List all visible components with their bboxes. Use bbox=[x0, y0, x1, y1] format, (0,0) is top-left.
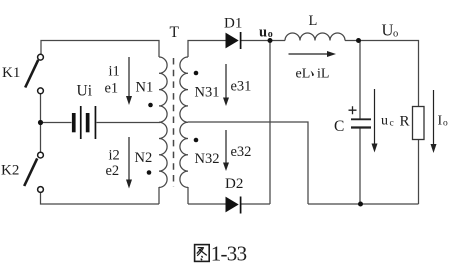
svg-text:i2: i2 bbox=[109, 148, 120, 164]
svg-text:i1: i1 bbox=[109, 64, 120, 80]
svg-text:L: L bbox=[309, 13, 318, 29]
svg-text:o: o bbox=[268, 29, 273, 40]
svg-text:N31: N31 bbox=[195, 85, 220, 101]
svg-text:o: o bbox=[443, 119, 448, 129]
svg-text:D1: D1 bbox=[224, 16, 242, 32]
svg-text:D2: D2 bbox=[225, 176, 243, 192]
svg-text:N1: N1 bbox=[136, 80, 154, 96]
svg-text:c: c bbox=[390, 119, 394, 129]
svg-text:u: u bbox=[381, 114, 388, 129]
svg-text:T: T bbox=[170, 24, 180, 41]
svg-text:e1: e1 bbox=[105, 81, 119, 97]
svg-text:iL: iL bbox=[317, 67, 329, 82]
svg-text:eL: eL bbox=[296, 67, 311, 82]
svg-text:N32: N32 bbox=[195, 151, 220, 167]
svg-text:I: I bbox=[438, 114, 443, 129]
svg-text:e31: e31 bbox=[231, 79, 252, 95]
svg-text:1-33: 1-33 bbox=[211, 242, 247, 266]
svg-text:U: U bbox=[382, 21, 394, 40]
svg-text:o: o bbox=[393, 29, 398, 40]
svg-text:e32: e32 bbox=[231, 144, 252, 160]
svg-text:N2: N2 bbox=[135, 150, 153, 166]
svg-text:e2: e2 bbox=[106, 163, 120, 179]
svg-text:R: R bbox=[400, 114, 410, 130]
svg-text:u: u bbox=[259, 25, 267, 41]
svg-text:K1: K1 bbox=[2, 65, 20, 81]
svg-text:Ui: Ui bbox=[77, 83, 93, 100]
svg-text:K2: K2 bbox=[1, 163, 19, 179]
svg-text:C: C bbox=[334, 118, 344, 135]
